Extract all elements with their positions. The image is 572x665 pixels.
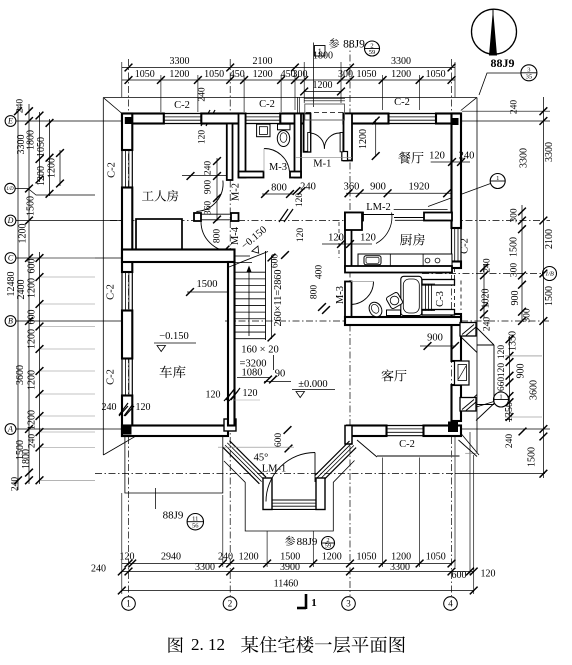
column mark bottom-right <box>448 422 458 433</box>
axis line A (horizontal) <box>15 428 122 430</box>
eave outline top <box>103 97 477 99</box>
level triangle stair <box>252 246 262 256</box>
WC south wall E <box>290 172 301 178</box>
living south wall left jog <box>345 426 352 445</box>
svg-text:240: 240 <box>483 317 493 332</box>
bottom extension lines <box>454 437 456 567</box>
room label garage <box>160 366 172 378</box>
axis line 3 (vertical) <box>349 41 351 596</box>
right extension lines <box>462 110 550 112</box>
svg-text:1080: 1080 <box>242 368 263 379</box>
left wall segment 1 <box>122 114 132 151</box>
svg-text:M-4: M-4 <box>230 226 241 245</box>
top dim row B <box>122 79 455 81</box>
right wall living lower <box>452 385 462 421</box>
D wall piece E <box>231 213 239 221</box>
door LM-1 arc <box>266 453 315 502</box>
chimney window inner <box>458 365 467 381</box>
door M-2 arc <box>196 181 223 212</box>
svg-text:120: 120 <box>198 130 208 145</box>
svg-text:3300: 3300 <box>390 562 410 573</box>
axis line D (horizontal) <box>15 220 122 222</box>
svg-text:−0.150: −0.150 <box>159 331 189 342</box>
door M-4 arc <box>201 222 231 252</box>
index circle 2/59 top <box>365 41 380 56</box>
svg-text:120: 120 <box>497 345 507 360</box>
left detail chain upper2 <box>49 119 51 196</box>
index circle detail 1 lower-right <box>494 392 509 407</box>
canopy outline <box>305 104 345 120</box>
svg-text:240: 240 <box>218 552 233 563</box>
svg-text:240: 240 <box>459 151 475 162</box>
svg-text:3600: 3600 <box>15 365 26 385</box>
svg-text:300: 300 <box>523 308 533 323</box>
svg-text:900: 900 <box>510 291 521 306</box>
chimney top block <box>460 323 476 337</box>
kitchen sink <box>364 256 381 265</box>
window C-2 top #1 <box>164 113 202 115</box>
axis line 1/B (horizontal) <box>422 273 543 275</box>
svg-text:240: 240 <box>102 402 117 413</box>
svg-text:1: 1 <box>126 599 131 609</box>
svg-text:120: 120 <box>206 390 221 401</box>
svg-text:2100: 2100 <box>544 229 555 249</box>
column mark bottom-left <box>122 427 132 435</box>
chimney outer edge <box>493 345 495 405</box>
svg-text:1: 1 <box>496 175 499 182</box>
svg-text:1050: 1050 <box>36 137 47 157</box>
svg-text:3: 3 <box>346 599 351 609</box>
axis circle C <box>5 253 16 264</box>
svg-text:1/B: 1/B <box>545 271 554 278</box>
svg-text:900: 900 <box>427 333 443 344</box>
door M-3 bath arc <box>351 282 374 305</box>
svg-text:M-1: M-1 <box>313 159 331 170</box>
porch slab outline <box>125 437 223 494</box>
svg-text:1020: 1020 <box>481 289 492 309</box>
kitchen burners <box>425 258 430 263</box>
door M-3 WC arc <box>264 148 290 171</box>
svg-text:1200: 1200 <box>253 69 273 80</box>
axis circle D <box>5 215 16 226</box>
right outer dim chain <box>542 97 544 478</box>
svg-text:1500: 1500 <box>280 552 300 563</box>
svg-text:120: 120 <box>243 388 258 399</box>
bathtub <box>401 276 422 315</box>
svg-text:600: 600 <box>27 259 38 274</box>
svg-text:90: 90 <box>275 369 286 380</box>
bay left stub wall <box>263 478 272 510</box>
svg-text:11460: 11460 <box>274 579 299 590</box>
WC west wall <box>239 114 246 178</box>
column mark top-right <box>451 118 459 125</box>
svg-text:C-2: C-2 <box>394 97 410 108</box>
svg-text:1: 1 <box>499 393 502 400</box>
svg-text:2: 2 <box>228 599 233 609</box>
svg-text:240: 240 <box>505 434 515 449</box>
svg-text:400: 400 <box>315 265 325 280</box>
right chimney dim chain <box>509 336 511 422</box>
svg-text:C-2: C-2 <box>174 100 190 111</box>
svg-text:600: 600 <box>274 433 284 448</box>
eave miter bottom-left <box>103 435 138 455</box>
wall break hatch garage east <box>226 388 235 400</box>
window C-2 top #2 <box>245 113 280 115</box>
window C-2 left #1 <box>121 150 123 188</box>
WC east wall <box>295 114 302 178</box>
stair break line <box>229 252 268 268</box>
living terrace left miter <box>357 440 377 457</box>
column mark top-left <box>125 117 132 124</box>
living south wall E <box>424 426 462 437</box>
window C-3 <box>425 284 427 311</box>
bay ref 参88J9 bottom <box>285 536 295 546</box>
right C-3 niche chain 240/1020/240 <box>483 264 485 318</box>
axis circle 1/B <box>543 267 557 281</box>
svg-text:1200: 1200 <box>27 329 38 349</box>
svg-text:45°: 45° <box>254 453 269 464</box>
garage east wall <box>228 262 235 426</box>
svg-text:1200: 1200 <box>36 166 47 186</box>
svg-text:3900: 3900 <box>280 562 300 573</box>
svg-text:1500: 1500 <box>26 196 37 216</box>
svg-text:1/D: 1/D <box>6 187 14 192</box>
right inner dim chain upper <box>521 205 523 322</box>
WC toilet <box>277 131 289 147</box>
svg-text:1500: 1500 <box>197 279 218 290</box>
entrance left stub wall <box>304 114 311 152</box>
right wall dining/kitchen <box>452 114 462 229</box>
svg-text:240: 240 <box>16 99 26 114</box>
window C-2 living south <box>387 425 424 427</box>
WC south wall W <box>239 172 264 178</box>
axis circle 1/D <box>5 183 15 193</box>
svg-text:1050: 1050 <box>135 69 155 80</box>
svg-text:2940: 2940 <box>161 552 181 563</box>
B wall bath/living <box>345 317 461 325</box>
bath cistern <box>387 310 401 316</box>
eave outline right <box>476 98 478 454</box>
axis circle 4 <box>444 597 458 611</box>
kitchen west wall <box>345 213 352 269</box>
svg-text:120: 120 <box>429 151 445 162</box>
svg-text:1200: 1200 <box>27 278 38 298</box>
svg-text:800: 800 <box>271 183 287 194</box>
axis circle 1 <box>122 597 136 611</box>
garage north wall <box>122 250 235 263</box>
axis circle A <box>5 424 16 435</box>
svg-text:C-2: C-2 <box>106 369 117 385</box>
svg-text:1200: 1200 <box>169 69 189 80</box>
bath north wall <box>345 266 452 273</box>
svg-text:1500: 1500 <box>527 447 538 467</box>
svg-text:LM-2: LM-2 <box>366 202 391 213</box>
stair dim line <box>264 381 291 383</box>
left wall segment 3 <box>122 311 132 359</box>
svg-text:450: 450 <box>230 69 245 80</box>
bath west wall <box>345 282 352 318</box>
svg-text:1050: 1050 <box>426 552 446 563</box>
svg-text:35: 35 <box>526 74 533 81</box>
window C-2 left #2 <box>121 272 123 311</box>
svg-text:M-3: M-3 <box>335 286 346 304</box>
svg-text:1050: 1050 <box>357 69 377 80</box>
dining west wall notch <box>342 152 348 161</box>
chimney bottom block <box>460 398 476 412</box>
right wall below kitchen win <box>452 262 462 269</box>
svg-text:56: 56 <box>192 523 199 530</box>
top dim row C 1200 entrance <box>304 91 341 93</box>
door M-1 left leaf <box>308 133 311 152</box>
svg-text:240: 240 <box>204 161 214 176</box>
axis circle 3 <box>342 597 356 611</box>
svg-text:C-3: C-3 <box>435 291 446 307</box>
leader to LM-2 <box>428 184 491 207</box>
bay bottom window <box>272 499 316 501</box>
svg-text:1: 1 <box>318 47 322 56</box>
svg-text:900: 900 <box>204 180 214 195</box>
top extension lines <box>121 62 123 97</box>
left detail chain lower <box>39 252 41 484</box>
svg-text:600: 600 <box>271 254 281 269</box>
door LM-1 leaf <box>314 453 316 483</box>
wall break hatch left lower <box>119 403 128 415</box>
ext line M-2 sill <box>182 175 227 177</box>
svg-text:3300: 3300 <box>519 148 530 168</box>
svg-text:88J9: 88J9 <box>491 56 515 70</box>
hatch garage E wall dim <box>224 391 233 401</box>
svg-text:2100: 2100 <box>253 56 273 67</box>
WC washbasin <box>257 124 270 137</box>
kitchen north wall W <box>345 213 363 221</box>
door LM-2 arc <box>376 213 392 244</box>
eave outline left <box>102 98 104 456</box>
bay right stub wall <box>316 478 325 510</box>
svg-text:1200: 1200 <box>358 129 369 149</box>
svg-text:300: 300 <box>293 69 308 80</box>
svg-text:3300: 3300 <box>391 56 411 67</box>
svg-text:M-2: M-2 <box>231 183 242 201</box>
door M-1 right leaf <box>340 133 343 152</box>
chimney window diagonal <box>459 366 467 379</box>
eave miter top-right <box>461 98 477 111</box>
index circle 3/35 <box>521 65 537 81</box>
svg-text:240: 240 <box>198 87 208 102</box>
svg-text:240: 240 <box>28 434 38 449</box>
door M-1 arcs <box>311 133 325 149</box>
dining floor edge line <box>295 156 352 158</box>
svg-text:120: 120 <box>296 228 306 243</box>
svg-text:240: 240 <box>483 258 493 273</box>
svg-text:1200: 1200 <box>239 552 259 563</box>
terrace edge line <box>218 446 294 448</box>
bath basin <box>386 292 404 310</box>
svg-text:900: 900 <box>516 364 527 379</box>
M-4 lintel lines <box>201 213 231 215</box>
label dining room <box>398 152 410 164</box>
axis line C (horizontal) <box>15 257 122 259</box>
svg-text:3600: 3600 <box>529 380 540 400</box>
chimney hatch bottom <box>462 400 474 410</box>
svg-text:1200: 1200 <box>27 370 38 390</box>
bath toilet <box>367 300 385 319</box>
svg-text:600: 600 <box>27 310 38 325</box>
stair arrow <box>248 268 250 336</box>
section mark 1-1 <box>305 594 308 609</box>
svg-text:D: D <box>7 216 14 225</box>
svg-text:120: 120 <box>328 233 344 244</box>
hatch garage W dim <box>119 406 128 416</box>
stair right edge <box>265 251 267 340</box>
svg-text:88J9: 88J9 <box>163 510 184 522</box>
left overall dim line 12480 <box>17 107 19 490</box>
index circle 2/59 bottom <box>322 537 335 550</box>
label kitchen <box>400 234 412 246</box>
svg-text:59: 59 <box>325 542 332 549</box>
stair dim 260x11=2860 <box>271 256 273 339</box>
svg-text:1200: 1200 <box>391 69 411 80</box>
svg-text:800: 800 <box>310 285 320 300</box>
svg-text:120: 120 <box>481 569 496 580</box>
level triangle garage <box>157 346 166 352</box>
svg-text:4: 4 <box>448 599 453 609</box>
index circle 11/56 <box>187 514 203 530</box>
svg-text:E: E <box>7 117 13 126</box>
wall break hatch D wall end <box>279 209 288 222</box>
svg-text:660: 660 <box>497 377 507 392</box>
left extension leader lines <box>41 257 95 259</box>
svg-text:C-2: C-2 <box>460 238 471 254</box>
svg-text:2400: 2400 <box>16 280 27 300</box>
worker-room east wall upper <box>227 124 233 181</box>
left wall segment 4 <box>122 396 132 437</box>
svg-text:11: 11 <box>192 516 198 523</box>
top dim row A <box>122 67 455 69</box>
porch edge axis line <box>95 473 455 475</box>
level triangle +-0.000 <box>296 392 305 398</box>
axis line 4 (vertical) <box>451 59 453 596</box>
svg-text:1350: 1350 <box>508 331 519 351</box>
north arrow circle <box>472 9 517 54</box>
svg-text:1920: 1920 <box>409 182 430 193</box>
column mark stair NW <box>228 252 234 258</box>
svg-text:M-3: M-3 <box>269 162 287 173</box>
svg-text:120: 120 <box>120 552 135 563</box>
svg-text:3300: 3300 <box>170 56 190 67</box>
svg-text:120: 120 <box>497 363 507 378</box>
right wall living upper <box>452 314 462 361</box>
svg-text:3300: 3300 <box>195 562 215 573</box>
svg-text:1050: 1050 <box>204 69 224 80</box>
svg-text:88J9: 88J9 <box>297 536 318 548</box>
svg-text:1: 1 <box>311 597 317 609</box>
axis line 2 (vertical) <box>229 59 231 596</box>
svg-text:120: 120 <box>136 402 151 413</box>
living terrace right miter <box>459 440 478 457</box>
svg-text:240: 240 <box>510 100 520 115</box>
living south wall W <box>347 426 387 437</box>
D wall piece W <box>194 213 201 221</box>
svg-text:260×11=2860: 260×11=2860 <box>273 270 284 327</box>
axis line B (horizontal) <box>15 320 122 322</box>
svg-text:120: 120 <box>295 193 305 208</box>
svg-text:1200: 1200 <box>47 158 58 178</box>
entrance steps <box>304 97 345 99</box>
left detail 1200 inner <box>59 150 61 186</box>
svg-text:1200: 1200 <box>391 552 411 563</box>
svg-text:800: 800 <box>213 229 223 244</box>
window C-2 left #3 <box>121 359 123 396</box>
left wall segment 2 <box>122 188 132 273</box>
bottom dim row 2 <box>122 571 474 573</box>
bay left wing window <box>223 447 260 484</box>
top ref leader 参88J9 <box>313 43 315 108</box>
svg-text:C-2: C-2 <box>107 162 118 178</box>
axis circle B <box>5 316 16 327</box>
svg-text:1200: 1200 <box>18 224 29 244</box>
garage south wall <box>122 426 228 437</box>
top wall segment W3 <box>280 114 303 124</box>
svg-text:300: 300 <box>510 208 520 223</box>
leader chimney <box>470 402 494 410</box>
svg-text:59: 59 <box>369 49 376 56</box>
svg-text:300: 300 <box>510 263 520 278</box>
svg-text:600: 600 <box>452 570 467 581</box>
chimney upper diagonals <box>476 327 494 345</box>
svg-text:3: 3 <box>527 67 530 74</box>
north arrow needle <box>489 9 497 56</box>
C-3 bay walls <box>422 280 455 286</box>
svg-text:1800: 1800 <box>26 130 37 150</box>
garage SE corner jog <box>224 419 236 431</box>
axis line 1 (vertical) <box>128 59 130 596</box>
eave bottom-right corner <box>461 434 479 456</box>
axis circle E <box>5 116 16 127</box>
svg-text:2. 12: 2. 12 <box>191 635 225 654</box>
svg-text:1050: 1050 <box>357 552 377 563</box>
eave miter top-left <box>104 98 122 113</box>
stair treads <box>235 271 266 273</box>
chimney window outer <box>455 361 470 385</box>
figure title <box>168 637 182 653</box>
bay right wing window <box>315 441 350 476</box>
svg-text:C: C <box>8 254 14 263</box>
svg-text:88J9: 88J9 <box>343 39 365 51</box>
index circle detail 1 upper-right <box>490 174 505 189</box>
chimney lower diagonals <box>476 404 494 421</box>
entrance right stub = dining west wall <box>344 114 353 161</box>
kitchen counter <box>358 254 452 266</box>
worker-room closet <box>136 219 182 253</box>
svg-text:240: 240 <box>91 564 106 575</box>
svg-text:1200: 1200 <box>27 410 38 430</box>
svg-text:C-2: C-2 <box>399 439 415 450</box>
svg-text:160 × 20: 160 × 20 <box>241 345 278 356</box>
living terrace edge <box>377 455 460 457</box>
top wall segment E2 <box>436 114 461 124</box>
canopy dashed line <box>306 112 344 114</box>
dim column line at closet <box>216 158 218 221</box>
label living room <box>382 370 394 382</box>
svg-text:3300: 3300 <box>544 142 555 162</box>
porch ref leader <box>155 488 157 509</box>
svg-text:120: 120 <box>360 233 376 244</box>
kitchen NW corner pier <box>345 213 362 231</box>
chimney hatch top <box>462 325 474 335</box>
svg-text:LM-1: LM-1 <box>262 464 287 475</box>
top wall segment E1 <box>344 114 389 124</box>
bottom dim row 3 overall <box>122 590 474 592</box>
